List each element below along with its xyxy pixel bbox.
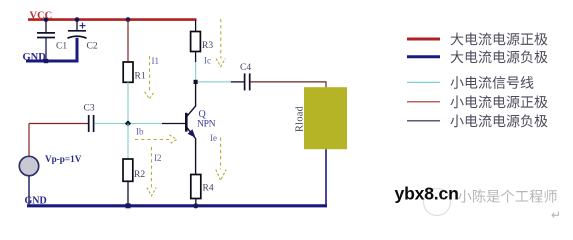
wire: C1 bottom lead	[45, 38, 47, 62]
svg-text:C1: C1	[56, 42, 67, 52]
wire: collector node to C4 (cyan then black)	[198, 81, 231, 83]
wire: input source vertical (thin red)	[28, 124, 30, 157]
svg-text:Ie: Ie	[210, 133, 217, 143]
wire: source to ground rail (blue)	[28, 176, 30, 206]
transistor Q1 emitter arrow	[188, 129, 196, 138]
wire: GND rail upper-left (thick blue)	[26, 60, 79, 63]
capacitor C4	[245, 73, 250, 90]
svg-text:C4: C4	[240, 63, 251, 73]
wire: input horizontal (thin red)	[29, 123, 88, 125]
node: junction R4 on ground rail	[193, 203, 198, 208]
node: junction R2 on ground rail	[126, 203, 131, 208]
node: junction on VCC rail at C2	[75, 17, 80, 22]
current arrow Ib (dashed)	[135, 135, 177, 144]
svg-text:Vp-p=1V: Vp-p=1V	[45, 154, 82, 164]
transistor Q1 collector lead	[187, 84, 196, 117]
svg-text:R3: R3	[202, 41, 213, 51]
capacitor C1	[37, 33, 55, 38]
svg-text:I1: I1	[152, 56, 160, 66]
watermark circle	[424, 189, 451, 216]
current arrow I1 (dashed)	[145, 56, 155, 99]
current arrow Ie (dashed)	[216, 138, 226, 181]
svg-text:↵: ↵	[551, 208, 561, 222]
svg-text:C2: C2	[87, 42, 98, 52]
wire: load bottom to ground rail (blue)	[325, 149, 327, 206]
legend line: thick blue (high-current negative)	[407, 55, 440, 58]
transistor Q1 emitter lead	[187, 127, 196, 174]
capacitor C2 (polarized)	[68, 31, 87, 38]
capacitor C3	[89, 115, 94, 132]
svg-text:Rload: Rload	[295, 105, 306, 132]
current arrow Ic (dashed)	[216, 19, 225, 67]
svg-text:R2: R2	[134, 170, 145, 180]
load resistor Rload (yellow block)	[304, 87, 347, 149]
svg-text:C3: C3	[84, 104, 95, 114]
transistor Q1 base bar	[185, 113, 188, 132]
node: collector node square	[194, 80, 198, 84]
LEG3	[450, 76, 533, 89]
svg-text:ybx8.cn: ybx8.cn	[395, 184, 459, 204]
node: junction on VCC rail at R1	[126, 17, 131, 22]
legend line: thin dark (small-current negative)	[407, 120, 440, 122]
legend line: thick red (high-current positive)	[407, 38, 440, 41]
wire: VCC to R3 (black)	[195, 20, 197, 32]
wire: R2 bottom to ground rail	[127, 181, 129, 205]
current arrow I2 (dashed)	[147, 147, 156, 196]
svg-text:R1: R1	[135, 72, 146, 82]
svg-text:VCC: VCC	[30, 11, 53, 22]
WMTEXT	[458, 189, 557, 202]
wire: R3 bottom (black then cyan) to collector node	[195, 52, 197, 63]
label: plus sign of C2	[80, 23, 86, 29]
resistor R2	[123, 159, 133, 181]
legend line: cyan (small signal)	[407, 81, 440, 83]
svg-text:NPN: NPN	[197, 119, 216, 130]
wire: C2 bottom lead (thick blue)	[76, 38, 79, 61]
wire: base wire to transistor (black)	[162, 123, 186, 125]
LEG5	[450, 114, 547, 127]
svg-text:Ic: Ic	[204, 56, 211, 66]
LEG2	[451, 50, 548, 63]
svg-text:Ib: Ib	[136, 127, 144, 137]
wire: VCC top rail (thick red)	[28, 18, 197, 21]
legend line: thin red (small-current positive)	[407, 101, 440, 103]
resistor R3	[191, 32, 201, 52]
resistor R4	[191, 175, 201, 199]
wire: R4 bottom to ground rail	[195, 199, 197, 206]
node: junction on VCC rail at C1	[44, 17, 49, 22]
wire: base node down to R2 (cyan)	[127, 124, 129, 160]
resistor R1	[123, 62, 133, 82]
node: base node junction	[125, 120, 131, 126]
LEG4	[450, 95, 547, 108]
wire: C2 top lead	[76, 20, 78, 31]
wire: R1 bottom to base node (cyan)	[127, 82, 129, 123]
svg-text:R4: R4	[203, 184, 214, 194]
wire: C4 to load (dark red)	[250, 82, 326, 88]
wire: C1 top lead	[45, 20, 47, 33]
LEG1	[451, 33, 548, 46]
wire: bottom ground rail (thick blue)	[27, 204, 327, 207]
wire: C3 to base node (cyan)	[94, 123, 162, 125]
wire: VCC to R1 (thin red)	[127, 20, 129, 62]
source V1 (Vp-p=1V)	[19, 156, 38, 175]
node: junction of C1 on GND rail	[44, 59, 48, 63]
svg-text:I2: I2	[154, 153, 162, 163]
